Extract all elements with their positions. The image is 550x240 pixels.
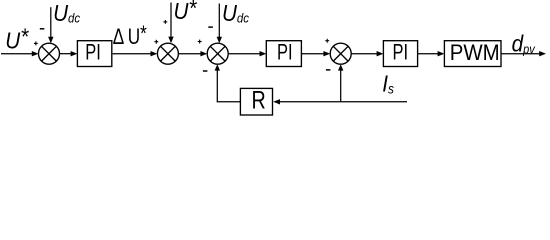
wire U_dc into S3 top	[217, 4, 222, 44]
svg-text:U*: U*	[174, 0, 198, 25]
sign + at S3 left input	[198, 40, 202, 44]
wire U_dc into S1 top	[48, 7, 53, 43]
sign - at S1 top input	[40, 28, 45, 30]
svg-text:U*: U*	[5, 23, 29, 54]
svg-text:PI: PI	[277, 40, 293, 65]
block PI3	[383, 40, 417, 66]
wire branch from Is line up into S4 bottom	[338, 64, 343, 102]
wire PWM output	[501, 51, 546, 56]
wire feedback from R output up into S3 bottom	[215, 64, 241, 102]
block R	[240, 86, 272, 115]
wire PI2 to S4	[302, 51, 331, 56]
sign - at S3 bottom input	[203, 70, 208, 72]
wire U* into S2 top	[168, 3, 173, 44]
summer S3	[207, 43, 228, 64]
sign + at S2 left input	[154, 40, 158, 44]
sign - at S4 bottom input	[326, 69, 331, 71]
svg-text:Δ U*: Δ U*	[113, 22, 147, 50]
block PWM	[444, 40, 501, 66]
wire I_s into R	[273, 99, 407, 104]
wire PI3 to PWM	[418, 51, 445, 56]
svg-text:PI: PI	[85, 40, 101, 65]
sign - at S3 top input	[208, 26, 213, 28]
wire input into S1	[1, 51, 39, 56]
summer S1	[39, 43, 60, 64]
block PI2	[266, 40, 301, 66]
sign + at S4 left input	[325, 39, 329, 43]
summer S4	[330, 43, 351, 64]
summer S2	[157, 43, 178, 64]
sign + at S1 left input	[34, 42, 38, 46]
wire PI1 to S2	[113, 51, 158, 56]
svg-text:PWM: PWM	[450, 40, 500, 65]
block PI1	[77, 40, 111, 66]
sign + at S2 top input	[163, 20, 167, 24]
svg-text:R: R	[252, 86, 266, 114]
wire S2 to S3	[178, 51, 207, 56]
svg-text:PI: PI	[393, 40, 409, 65]
wire S3 to PI2	[228, 51, 266, 56]
wire S1 to PI1	[60, 51, 78, 56]
wire S4 to PI3	[351, 51, 383, 56]
